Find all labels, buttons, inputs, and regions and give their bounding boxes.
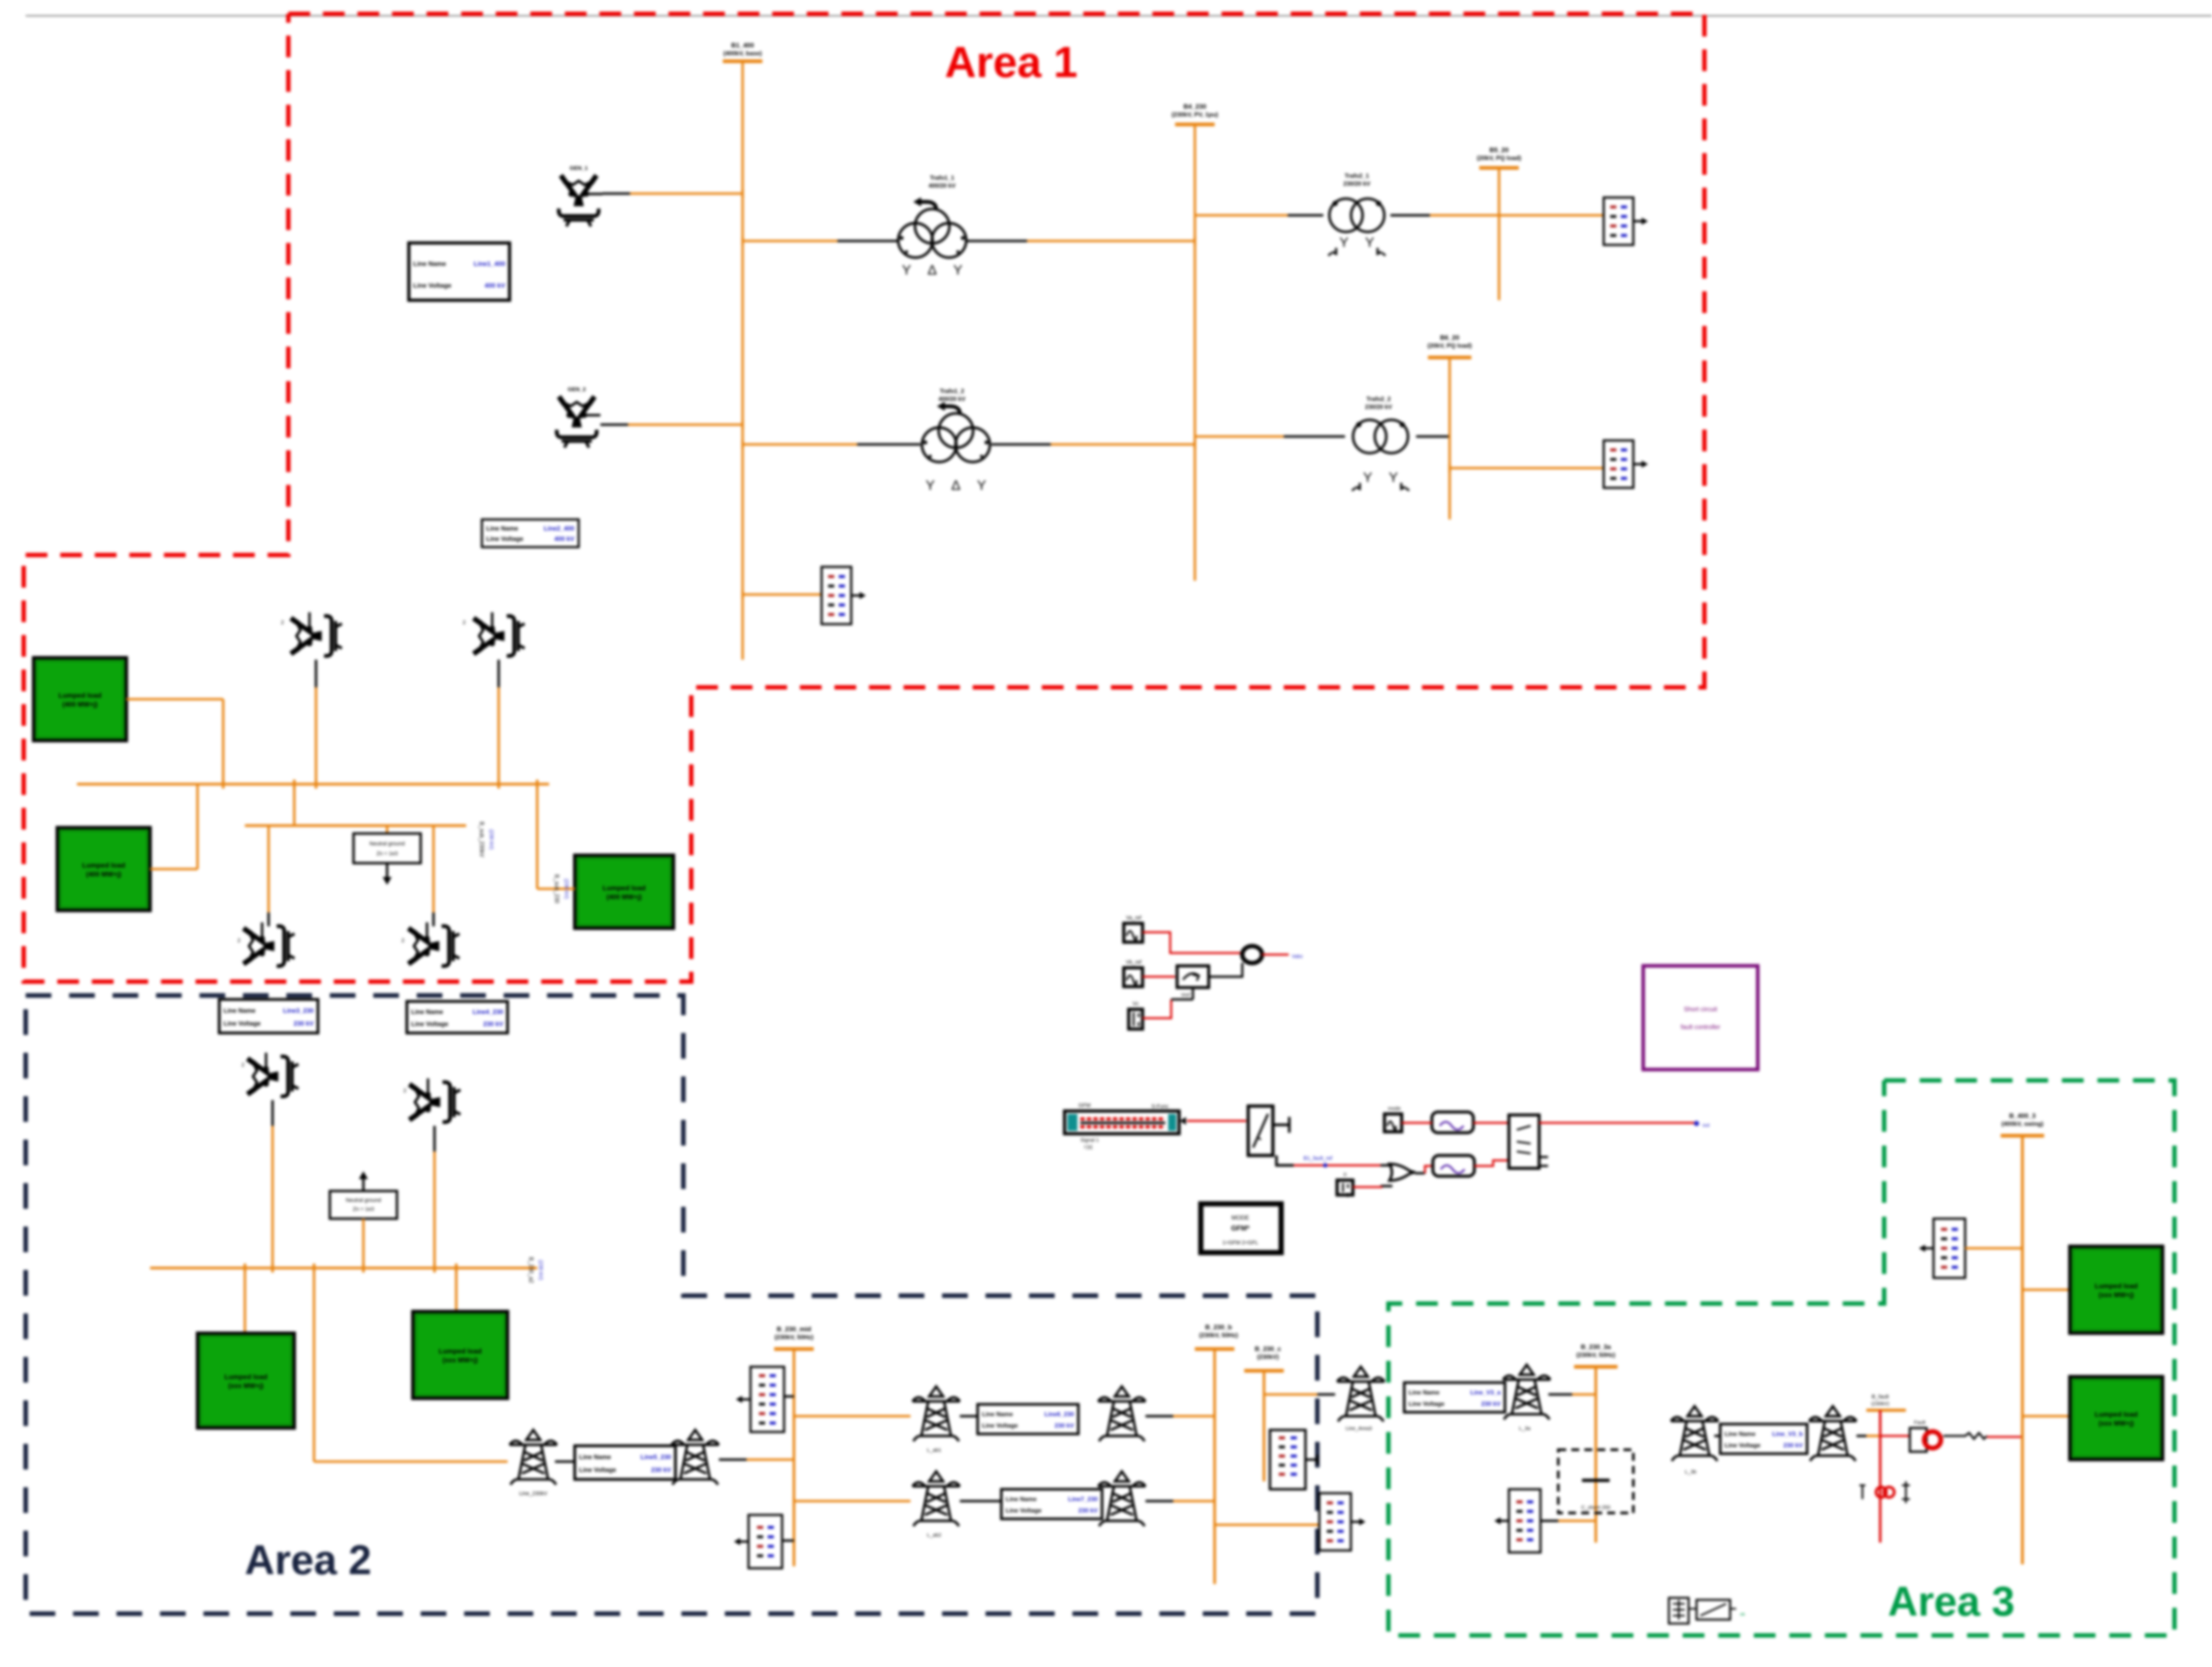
svg-text:B6_20: B6_20 (1440, 334, 1460, 341)
svg-text:(400 MW+j): (400 MW+j) (62, 701, 97, 708)
svg-text:Trafo2_2: Trafo2_2 (1366, 396, 1391, 402)
svg-text:fault controller: fault controller (1681, 1023, 1721, 1031)
svg-text:Lumped load: Lumped load (2094, 1410, 2137, 1418)
svg-text:2: 2 (463, 620, 466, 626)
svg-text:Line Voltage: Line Voltage (224, 1020, 261, 1027)
svg-text:(xxx MW+j): (xxx MW+j) (2098, 1291, 2133, 1299)
svg-text:Trafo2_1: Trafo2_1 (1344, 172, 1369, 179)
svg-text:B_230_c: B_230_c (1255, 1345, 1281, 1352)
svg-text:t [s]: t [s] (1084, 1145, 1092, 1150)
svg-text:230 kV: 230 kV (651, 1466, 671, 1473)
svg-text:Line3_230: Line3_230 (283, 1007, 314, 1014)
svg-text:Line Name: Line Name (1409, 1389, 1440, 1396)
svg-text:(20kV, PQ load): (20kV, PQ load) (1477, 155, 1521, 161)
svg-text:Line Name: Line Name (411, 1008, 443, 1016)
svg-text:Zn = 1e3: Zn = 1e3 (353, 1206, 374, 1212)
svg-text:230/20 kV: 230/20 kV (1343, 180, 1371, 187)
svg-text:(230 kV): (230 kV) (488, 830, 494, 850)
svg-text:Lumped load: Lumped load (438, 1347, 481, 1355)
svg-text:230 kV: 230 kV (483, 1020, 504, 1028)
svg-text:L_3b: L_3b (1685, 1469, 1696, 1475)
svg-text:(230kV, PV, 1pu): (230kV, PV, 1pu) (1172, 111, 1218, 118)
svg-text:(400 MW+j): (400 MW+j) (606, 893, 641, 901)
svg-text:1=GFM 2=GFL: 1=GFM 2=GFL (1223, 1240, 1259, 1246)
svg-text:B_fault: B_fault (1872, 1394, 1890, 1400)
svg-text:B1_400: B1_400 (731, 41, 754, 49)
svg-text:L_3a: L_3a (1519, 1426, 1530, 1431)
svg-text:GFM: GFM (1078, 1103, 1091, 1109)
svg-text:Lumped load: Lumped load (82, 861, 125, 869)
svg-text:Area 1: Area 1 (945, 38, 1077, 86)
svg-text:B4_230: B4_230 (1184, 103, 1206, 110)
svg-text:Line Voltage: Line Voltage (579, 1466, 616, 1473)
svg-text:2: 2 (237, 938, 240, 944)
svg-text:Lumped load: Lumped load (224, 1373, 267, 1381)
svg-text:L_ab2: L_ab2 (927, 1533, 942, 1538)
svg-text:Vb_ref: Vb_ref (1126, 959, 1142, 965)
svg-text:Lumped load: Lumped load (58, 691, 101, 699)
svg-text:Vabc: Vabc (1292, 954, 1303, 959)
svg-text:Line_V3_a: Line_V3_a (1470, 1389, 1501, 1396)
svg-text:230 kV: 230 kV (1783, 1442, 1803, 1449)
svg-text:2: 2 (401, 938, 404, 944)
svg-text:ok: ok (1740, 1612, 1745, 1617)
svg-text:400/20 kV: 400/20 kV (929, 182, 956, 189)
svg-text:Line Name: Line Name (224, 1007, 256, 1014)
svg-text:Area 3: Area 3 (1888, 1578, 2015, 1625)
svg-text:Line Voltage: Line Voltage (1409, 1400, 1445, 1407)
svg-text:230 kV: 230 kV (294, 1020, 314, 1027)
svg-text:MODE: MODE (1231, 1214, 1249, 1221)
svg-text:(230kV): (230kV) (1871, 1401, 1889, 1407)
svg-text:(20kV, PQ load): (20kV, PQ load) (1427, 342, 1472, 349)
svg-text:400/20 kV: 400/20 kV (939, 396, 966, 402)
svg-text:mode: mode (1388, 1106, 1401, 1111)
svg-text:2: 2 (403, 1088, 406, 1094)
svg-text:(230kV): (230kV) (1257, 1353, 1279, 1360)
svg-text:B_230_b: B_230_b (1205, 1323, 1232, 1331)
svg-text:Signal 1: Signal 1 (1080, 1138, 1099, 1143)
svg-text:C_shunt 250: C_shunt 250 (1581, 1505, 1611, 1510)
svg-text:2: 2 (281, 620, 284, 626)
svg-text:Vref: Vref (1181, 992, 1190, 998)
svg-text:B_400_3: B_400_3 (2009, 1112, 2036, 1119)
svg-text:(400 MW+j): (400 MW+j) (86, 871, 121, 878)
svg-text:Line5_230: Line5_230 (640, 1453, 671, 1461)
svg-text:L_ab1: L_ab1 (927, 1448, 942, 1453)
svg-text:Line7_230: Line7_230 (1068, 1496, 1098, 1503)
svg-text:Trafo1_1: Trafo1_1 (930, 174, 954, 181)
svg-text:B5_20: B5_20 (1490, 146, 1509, 154)
svg-text:Line Name: Line Name (579, 1453, 611, 1461)
svg-text:(230kV, 50Hz): (230kV, 50Hz) (1199, 1332, 1238, 1339)
svg-text:Line2_400: Line2_400 (544, 524, 574, 532)
svg-text:B_230_mid: B_230_mid (777, 1325, 811, 1333)
svg-text:Lumped load: Lumped load (2094, 1282, 2137, 1290)
svg-text:Trafo1_2: Trafo1_2 (940, 388, 964, 395)
svg-text:(230kV, 50Hz): (230kV, 50Hz) (1577, 1351, 1616, 1358)
svg-text:230 kV: 230 kV (1078, 1507, 1098, 1514)
svg-text:Line Voltage: Line Voltage (411, 1020, 448, 1028)
svg-text:Line_230kV: Line_230kV (519, 1491, 548, 1497)
svg-text:Line Name: Line Name (1725, 1430, 1756, 1437)
svg-text:Line_Area3: Line_Area3 (1345, 1426, 1372, 1431)
svg-text:GEN_2: GEN_2 (568, 387, 586, 393)
svg-text:Short circuit: Short circuit (1684, 1005, 1717, 1013)
svg-text:Line_V3_b: Line_V3_b (1772, 1430, 1803, 1437)
svg-text:Vc: Vc (1133, 1001, 1139, 1007)
svg-text:400 kV: 400 kV (484, 281, 505, 289)
svg-text:230 kV: 230 kV (1481, 1400, 1501, 1407)
svg-text:(xxx MW+j): (xxx MW+j) (442, 1356, 477, 1364)
svg-text:(400kV, base): (400kV, base) (723, 50, 762, 57)
svg-text:(xxx MW+j): (xxx MW+j) (228, 1382, 263, 1389)
svg-text:GEN_1: GEN_1 (570, 165, 588, 171)
svg-text:GFM*: GFM* (1231, 1225, 1250, 1232)
svg-text:Line4_230: Line4_230 (473, 1008, 503, 1016)
svg-text:B_230_a2: B_230_a2 (528, 1257, 534, 1283)
svg-text:2: 2 (241, 1062, 244, 1068)
svg-text:Neutral ground: Neutral ground (369, 841, 404, 847)
svg-text:B_sub_230kV: B_sub_230kV (478, 822, 485, 857)
svg-text:Va_ref: Va_ref (1126, 915, 1142, 921)
svg-text:400 kV: 400 kV (554, 535, 575, 543)
svg-text:Line Voltage: Line Voltage (486, 535, 523, 543)
svg-text:Zn = 1e3: Zn = 1e3 (377, 851, 398, 857)
svg-text:Line6_230: Line6_230 (1044, 1411, 1074, 1418)
svg-text:230 kV: 230 kV (1055, 1422, 1074, 1429)
svg-text:B_230_3a: B_230_3a (1581, 1343, 1612, 1350)
svg-text:Line Name: Line Name (413, 260, 446, 267)
svg-text:Line Name: Line Name (1006, 1496, 1037, 1503)
svg-text:(230 kV): (230 kV) (563, 879, 569, 899)
svg-text:(230 kV): (230 kV) (538, 1260, 544, 1280)
svg-text:Fault: Fault (1914, 1420, 1925, 1426)
svg-text:Line1_400: Line1_400 (474, 260, 505, 267)
svg-text:Line Name: Line Name (486, 524, 518, 532)
svg-text:Area 2: Area 2 (245, 1537, 372, 1583)
svg-text:Lumped load: Lumped load (602, 884, 645, 892)
svg-text:B1_fault_ref: B1_fault_ref (1303, 1155, 1333, 1161)
svg-text:(400kV, swing): (400kV, swing) (2002, 1120, 2044, 1127)
svg-text:Line Voltage: Line Voltage (413, 281, 451, 289)
svg-text:S-Func: S-Func (1151, 1104, 1169, 1110)
svg-text:230/20 kV: 230/20 kV (1365, 403, 1392, 410)
svg-text:Line Voltage: Line Voltage (982, 1422, 1018, 1429)
svg-text:0: 0 (1343, 1172, 1346, 1178)
svg-text:(xxx MW+j): (xxx MW+j) (2098, 1420, 2133, 1427)
svg-text:out: out (1702, 1123, 1710, 1128)
svg-text:Line Name: Line Name (982, 1411, 1013, 1418)
svg-text:(230kV, 50Hz): (230kV, 50Hz) (775, 1334, 814, 1341)
svg-text:Line Voltage: Line Voltage (1006, 1507, 1042, 1514)
svg-text:B_sub_230: B_sub_230 (553, 874, 560, 904)
svg-text:Neutral ground: Neutral ground (346, 1197, 381, 1203)
svg-text:Line Voltage: Line Voltage (1725, 1442, 1761, 1449)
